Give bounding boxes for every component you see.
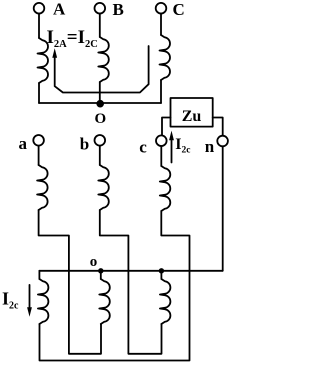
svg-text:Zu: Zu xyxy=(182,108,202,125)
svg-text:I2c: I2c xyxy=(2,289,19,312)
wire winding a jog down and U-link to bottom winding 2 xyxy=(39,210,101,354)
svg-text:A: A xyxy=(53,0,66,19)
node dot c-winding junction xyxy=(159,268,164,273)
current arrow I2c shaft (bottom left, pointing down) xyxy=(29,285,31,309)
svg-text:o: o xyxy=(90,254,98,270)
winding A (primary phase A) xyxy=(38,38,49,83)
winding B (primary phase B) xyxy=(98,37,109,82)
impedance box Zu xyxy=(171,98,213,127)
wire winding c jog down, bottom rail, riser to bottom winding 1 xyxy=(40,211,190,361)
terminal a xyxy=(33,135,44,146)
arrowhead I2c bottom (down) xyxy=(27,307,32,317)
wire coil B to node O xyxy=(99,82,101,103)
arrowhead I2c middle (up) xyxy=(169,131,174,141)
winding C (primary phase C) xyxy=(160,35,171,80)
wire node o to bottom winding 2 xyxy=(100,271,102,279)
svg-text:B: B xyxy=(113,0,124,19)
terminal c xyxy=(156,135,167,146)
winding 2 (zigzag bottom, middle) xyxy=(99,279,110,324)
wire A to coil xyxy=(38,14,40,38)
svg-text:c: c xyxy=(139,138,147,157)
secondary neutral rail o xyxy=(39,270,222,272)
winding a (secondary top, phase a) xyxy=(37,165,48,210)
wire Zu right to terminal n xyxy=(213,118,223,136)
wire b to coil xyxy=(99,146,101,165)
wire node to bottom winding 3 xyxy=(160,271,162,279)
svg-text:I2A=I2C: I2A=I2C xyxy=(47,27,98,50)
neutral rail O (top) xyxy=(39,102,161,104)
svg-text:O: O xyxy=(95,111,107,127)
svg-text:C: C xyxy=(173,0,185,19)
wire n down to rail xyxy=(222,147,224,271)
winding 3 (zigzag bottom, right) xyxy=(160,279,171,324)
wire rail to bottom winding 1 xyxy=(38,271,40,279)
wire coil C to rail xyxy=(160,80,162,103)
node O dot xyxy=(96,100,104,108)
wire C to coil xyxy=(160,14,162,35)
terminal C xyxy=(156,3,167,14)
terminal n xyxy=(217,136,228,147)
svg-text:b: b xyxy=(80,135,89,154)
wire c to coil xyxy=(160,146,162,166)
svg-text:I2c: I2c xyxy=(175,136,190,156)
wire coil A to rail xyxy=(38,83,40,103)
node o dot xyxy=(98,268,103,273)
winding c (secondary top, phase c) xyxy=(160,166,171,211)
wire winding b jog down and U-link to bottom winding 3 xyxy=(100,210,162,354)
svg-text:a: a xyxy=(19,134,28,153)
arrowhead I2A (up) xyxy=(52,48,57,58)
wire a to coil xyxy=(38,146,40,165)
winding b (secondary top, phase b) xyxy=(98,165,109,210)
wire Zu left to terminal c xyxy=(162,118,171,136)
current indicator line I2A (arrow path) xyxy=(55,46,149,93)
svg-text:n: n xyxy=(205,137,215,156)
winding 1 (zigzag bottom, left) xyxy=(38,279,49,324)
terminal B xyxy=(95,3,106,14)
current arrow I2c shaft (at terminal c) xyxy=(171,139,173,163)
terminal b xyxy=(95,135,106,146)
terminal A xyxy=(34,3,45,14)
wire B to coil xyxy=(99,14,101,37)
